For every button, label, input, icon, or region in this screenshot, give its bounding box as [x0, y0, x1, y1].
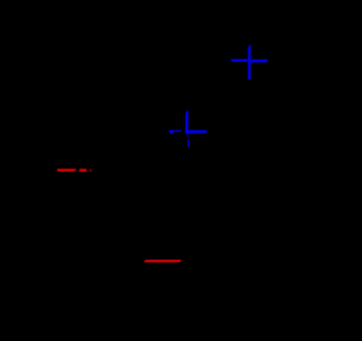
wire: highlighted red dashed net, dash 1: [57, 169, 76, 172]
wire: highlighted red dashed net, dash 3 (dot): [90, 169, 92, 172]
wire: highlighted red dashed net, dash 2: [79, 169, 88, 172]
wire: selected vertical wire at lower junction: [185, 111, 188, 134]
wire: faint stub below lower junction: [187, 134, 189, 138]
wire: selected vertical wire at upper junction: [248, 45, 251, 80]
wire: short selected dash below lower junction: [188, 139, 190, 147]
wire: selected horizontal wire, right arm of upper junction: [251, 59, 268, 62]
wire: highlighted red net segment (lower): [144, 260, 181, 262]
wire: selected horizontal wire of lower junction: [185, 130, 207, 133]
wire: selected horizontal wire, left arm of upper junction: [231, 59, 248, 62]
wire: short selected dash left of lower junction: [169, 130, 181, 133]
